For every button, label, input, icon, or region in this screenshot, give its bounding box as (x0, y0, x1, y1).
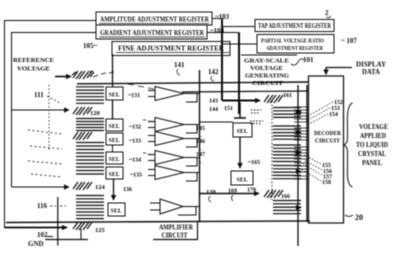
label 152 (306, 100, 343, 117)
tap bundle BB1 (273, 108, 301, 118)
svg-text:AMPLIFIER: AMPLIFIER (159, 224, 194, 232)
wire: reference tap arrow 3 (12, 186, 70, 188)
resistor RB (right ladder bottom) (264, 190, 283, 198)
svg-text:TAP ADJUSTMENT REGISTER: TAP ADJUSTMENT REGISTER (258, 22, 332, 30)
resistor ladder left: resistor R1 (72, 71, 94, 79)
op-amp A5 (148, 166, 199, 182)
decoder bus tick lines (294, 107, 308, 179)
wire: left outer bus vertical (4, 20, 6, 228)
wire: main vertical bus x=199 (199, 70, 201, 222)
svg-text:136: 136 (123, 187, 132, 193)
svg-text:~ 107: ~ 107 (341, 37, 357, 45)
svg-text:144: 144 (209, 107, 218, 113)
label 154 (307, 112, 338, 125)
wire: arrow down to SEL6 (113, 179, 115, 200)
register R-FINE box: FINE ADJUSTMENT REGISTER (112, 42, 230, 56)
svg-text:2: 2 (325, 9, 329, 17)
resistor R3 (73, 132, 92, 140)
svg-text:~132: ~132 (129, 125, 141, 131)
svg-text:~165: ~165 (248, 160, 260, 166)
svg-text:154: 154 (329, 112, 338, 118)
svg-text:FINE ADJUSTMENT REGISTER: FINE ADJUSTMENT REGISTER (118, 45, 225, 53)
wire: top feed to amplitude register (5, 20, 97, 22)
selector SEL-B (231, 171, 253, 185)
bundle arrowheads into decoder bus (296, 110, 302, 211)
wire: amp output long line (182, 91, 308, 92)
resistor R4 (73, 182, 92, 190)
label 153 (306, 106, 340, 121)
svg-text:AMPLITUDE ADJUSTMENT REGISTER: AMPLITUDE ADJUSTMENT REGISTER (100, 16, 210, 24)
block: DECODER CIRCUIT box (309, 76, 344, 223)
svg-text:130: 130 (206, 189, 216, 196)
leader dashes A4 (143, 153, 152, 155)
svg-text:PANEL: PANEL (362, 159, 382, 167)
svg-text:146: 146 (196, 139, 205, 145)
label 2 squiggle (326, 16, 331, 18)
decoder input bus rails (298, 85, 307, 246)
wire: SEL-A to SEL-B (239, 137, 241, 168)
svg-text:~133: ~133 (129, 139, 141, 145)
label 111 (34, 91, 61, 104)
tap bundle BB3 (273, 145, 301, 162)
svg-text:VOLTAGE: VOLTAGE (17, 66, 50, 73)
svg-text:111: 111 (34, 91, 44, 99)
svg-text:147: 147 (196, 152, 205, 158)
wire: tap register feed (222, 26, 255, 28)
svg-text:TO LIQUID: TO LIQUID (356, 141, 388, 149)
svg-text:SEL: SEL (109, 93, 120, 99)
svg-text:~134: ~134 (129, 158, 141, 164)
svg-text:120: 120 (90, 110, 100, 117)
svg-text:GRAY-SCALE: GRAY-SCALE (244, 58, 289, 65)
label 101 (291, 56, 314, 65)
op-amp A2 (148, 118, 199, 134)
svg-text:166: 166 (281, 194, 290, 200)
text VOLTAGE APPLIED TO LIQUID CRYSTAL PANEL (356, 123, 388, 167)
selector SEL2 (106, 119, 123, 131)
block: AMPLIFIER CIRCUIT label box (153, 222, 198, 240)
text DISPLAY DATA (356, 61, 386, 77)
label 146 (196, 139, 205, 150)
op-amp A6 (output buffer) (150, 199, 199, 215)
svg-text:CRYSTAL: CRYSTAL (358, 150, 386, 158)
wire: bottom long line (6, 221, 310, 223)
wire: thick vertical bus x=222 (221, 19, 223, 101)
display data arrow (326, 68, 352, 75)
svg-text:102: 102 (37, 231, 48, 239)
svg-text:PARTIAL VOLTAGE RATIO: PARTIAL VOLTAGE RATIO (261, 38, 324, 45)
label 160 (232, 195, 234, 201)
wire: partial voltage register feed (222, 43, 257, 45)
wire: bus link into SEL-A (200, 121, 234, 123)
label 130 (206, 189, 216, 202)
svg-text:SEL: SEL (109, 138, 120, 144)
svg-text:161: 161 (283, 93, 292, 99)
tap bundle B2 (76, 119, 104, 131)
selector SEL6 (108, 203, 125, 216)
svg-text:GENERATING: GENERATING (245, 73, 289, 80)
ground GND (28, 229, 88, 248)
op-amp A3 (148, 132, 199, 148)
selector SEL1 (106, 87, 123, 100)
svg-text:169: 169 (228, 189, 237, 195)
svg-text:143: 143 (209, 99, 218, 105)
label 162 leader marks (250, 110, 263, 124)
svg-text:VOLTAGE: VOLTAGE (359, 123, 388, 131)
wire: arrow into right ladder bottom (200, 193, 260, 195)
svg-text:DATA: DATA (362, 68, 380, 76)
wire: SEL3 to SEL4 (112, 145, 114, 152)
tap bundle BB5 (273, 201, 301, 214)
block: GRAY-SCALE VOLTAGE GENERATING CIRCUIT (241, 55, 297, 87)
svg-text:116: 116 (37, 202, 48, 210)
svg-text:SEL: SEL (237, 129, 248, 135)
text: REFERENCE VOLTAGE (13, 57, 54, 73)
svg-text:20: 20 (355, 213, 363, 222)
label 116 (37, 202, 66, 210)
svg-text:GND: GND (28, 240, 44, 248)
label 20 (345, 213, 363, 222)
svg-text:142: 142 (208, 68, 219, 76)
svg-text:REFERENCE: REFERENCE (13, 57, 54, 64)
svg-text:GRADIENT ADJUSTMENT REGISTER: GRADIENT ADJUSTMENT REGISTER (100, 29, 205, 37)
svg-text:CIRCUIT: CIRCUIT (315, 138, 341, 145)
svg-text:SEL: SEL (109, 172, 120, 178)
tap bundle BB2 (273, 126, 301, 139)
resistor R5 (73, 222, 92, 230)
svg-text:VOLTAGE: VOLTAGE (250, 65, 283, 72)
leader dashes A2 (143, 120, 152, 122)
label 142 (208, 68, 219, 81)
node leader dashes left column (28, 85, 62, 177)
wire: fine register down to selector chain (112, 54, 114, 87)
wire: node 116 tap down to ground rail (57, 197, 59, 246)
register R-PVR box: PARTIAL VOLTAGE RATIO ADJUSTMENT REGISTER (257, 35, 334, 54)
wire: reference tap arrow 4 (thick bottom) (5, 227, 68, 229)
svg-text:SEL: SEL (109, 157, 120, 163)
label 158 (301, 169, 331, 186)
label 141 (174, 61, 185, 75)
svg-text:SEL: SEL (109, 124, 120, 130)
svg-text:158: 158 (322, 180, 331, 186)
op-amp A1 (148, 87, 199, 103)
label 156 (304, 160, 332, 175)
label 145 (196, 126, 205, 137)
wire: feed to gradient register (12, 32, 97, 34)
svg-text:105~: 105~ (83, 42, 98, 50)
wire: top tap long line to gray-scale section (77, 82, 309, 84)
label 157 (303, 164, 332, 181)
wire: bus drop into SEL-A (234, 103, 246, 119)
svg-text:CIRCUIT: CIRCUIT (252, 80, 284, 87)
selector SEL3 (106, 133, 123, 145)
tap bundle B3 (76, 143, 104, 175)
svg-text:141: 141 (174, 61, 185, 69)
wire: thick vertical bus x=239 (238, 33, 240, 115)
wire: left inner bus vertical (11, 32, 13, 187)
right ladder spine dotted (271, 101, 273, 200)
selector SEL5 (106, 167, 123, 179)
svg-text:145: 145 (196, 126, 205, 132)
svg-text:APPLIED: APPLIED (360, 132, 386, 140)
leader dashes A1 (128, 84, 154, 89)
op-amp A4 (148, 151, 199, 167)
wire: thick arrow into right ladder top (222, 100, 260, 102)
selector SEL4 (106, 152, 123, 164)
svg-text:CIRCUIT: CIRCUIT (162, 232, 188, 240)
svg-text:DECODER: DECODER (314, 130, 341, 137)
svg-text:ADJUSTMENT REGISTER: ADJUSTMENT REGISTER (266, 45, 323, 52)
svg-text:124: 124 (95, 184, 106, 191)
svg-text:SEL: SEL (237, 178, 248, 184)
wire: amplitude register to thick bus (207, 19, 257, 115)
label 155 (304, 155, 331, 169)
label 147 (196, 152, 205, 163)
resistor R2 (73, 107, 92, 115)
svg-text:151: 151 (224, 106, 233, 112)
leader dashes for 110 (93, 72, 114, 77)
wire: SEL1 to SEL2 (112, 100, 114, 119)
svg-text:~135: ~135 (130, 173, 142, 179)
svg-text:101: 101 (303, 56, 314, 64)
register R-GRAD box: GRADIENT ADJUSTMENT REGISTER (96, 25, 207, 39)
brace for panel outputs (344, 103, 353, 187)
svg-text:SEL: SEL (111, 209, 122, 215)
resistor RA (right ladder top) (264, 95, 283, 103)
wire: reference tap arrow 2 (12, 109, 70, 111)
wire: reference voltage arrow into ladder top (55, 76, 71, 78)
tap bundle B4 (76, 196, 104, 219)
register R-TAP box: TAP ADJUSTMENT REGISTER (255, 20, 334, 32)
selector SEL-A (233, 123, 252, 137)
svg-text:125: 125 (95, 227, 106, 234)
svg-text:170: 170 (247, 188, 256, 194)
register R-AMP box: AMPLITUDE ADJUSTMENT REGISTER (96, 12, 212, 25)
wire: gradient register to bus (207, 32, 239, 34)
tap bundle B1 (76, 87, 104, 104)
svg-text:~131: ~131 (128, 93, 140, 99)
tap bundle BB4 (273, 166, 301, 179)
